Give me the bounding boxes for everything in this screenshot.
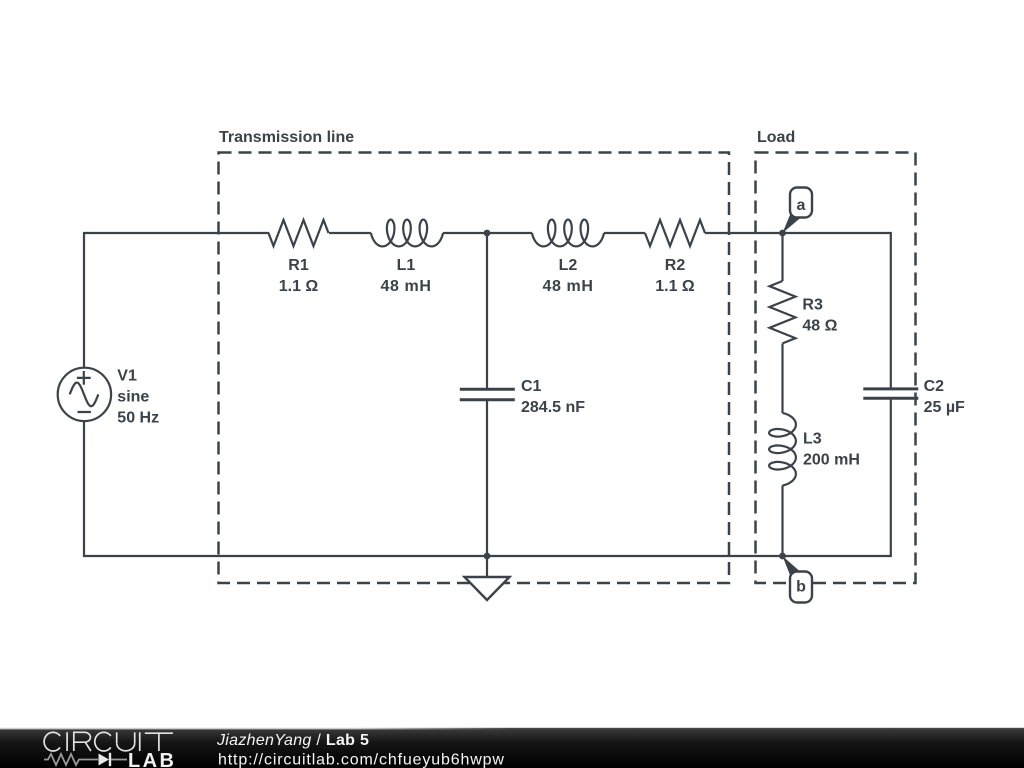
svg-text:http://circuitlab.com/chfueyub: http://circuitlab.com/chfueyub6hwpw <box>218 752 505 768</box>
svg-text:C2: C2 <box>924 378 945 395</box>
svg-text:1.1 Ω: 1.1 Ω <box>279 278 319 295</box>
svg-text:sine: sine <box>117 389 149 406</box>
svg-text:1.1 Ω: 1.1 Ω <box>655 278 695 295</box>
svg-text:C1: C1 <box>521 378 542 395</box>
svg-text:a: a <box>797 197 806 214</box>
svg-text:V1: V1 <box>117 368 137 385</box>
svg-text:R3: R3 <box>802 297 823 314</box>
svg-text:L1: L1 <box>397 257 416 274</box>
svg-text:48 mH: 48 mH <box>542 278 593 295</box>
svg-text:b: b <box>796 579 806 596</box>
svg-text:200 mH: 200 mH <box>803 452 860 469</box>
svg-text:JiazhenYang / Lab 5: JiazhenYang / Lab 5 <box>216 732 369 749</box>
svg-text:R1: R1 <box>288 257 309 274</box>
svg-text:L3: L3 <box>803 431 822 448</box>
svg-text:Transmission line: Transmission line <box>219 129 354 146</box>
svg-text:25 µF: 25 µF <box>924 399 965 416</box>
svg-text:R2: R2 <box>665 257 686 274</box>
svg-text:LAB: LAB <box>128 750 176 768</box>
svg-text:48 Ω: 48 Ω <box>802 318 837 335</box>
svg-text:L2: L2 <box>559 257 578 274</box>
svg-text:Load: Load <box>757 129 795 146</box>
svg-text:50 Hz: 50 Hz <box>117 410 159 427</box>
svg-text:48 mH: 48 mH <box>380 278 431 295</box>
svg-text:284.5 nF: 284.5 nF <box>521 399 585 416</box>
